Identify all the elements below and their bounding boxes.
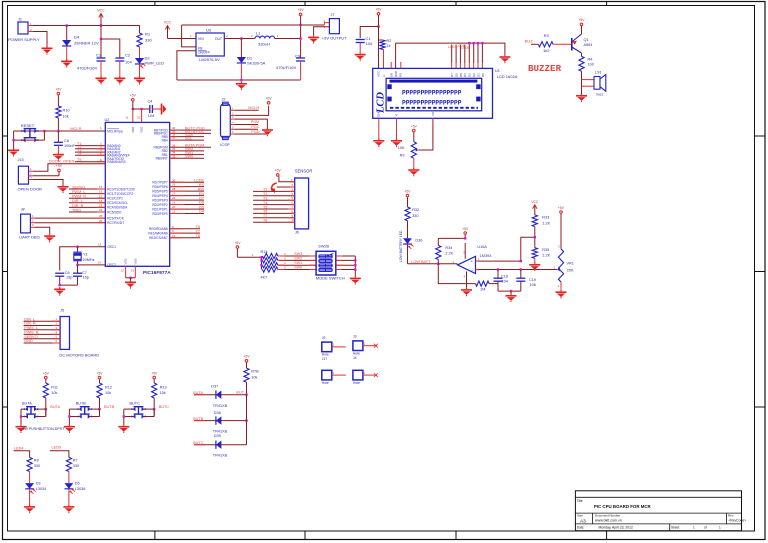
LED D3 L3034 [25,482,46,505]
svg-text:RD6/PSP6: RD6/PSP6 [152,185,168,189]
ground at C3 [96,76,107,85]
junction at D1 [240,37,242,39]
svg-text:C4: C4 [148,99,153,103]
svg-text:1k: 1k [387,44,391,48]
wire +5V down to LCD VCC pin [378,27,380,69]
connector J6 SENSOR [295,168,313,234]
svg-text:ZENNER 12V: ZENNER 12V [74,41,99,46]
svg-text:2.2K: 2.2K [542,254,550,258]
wire U3 OUT to L1 [224,34,255,38]
svg-text:J9: J9 [322,336,326,340]
svg-text:R13: R13 [160,386,167,390]
wire L1 to output node [275,24,302,58]
svg-text:TR41XB: TR41XB [213,429,228,433]
svg-text:LM2576-5V: LM2576-5V [199,57,220,62]
svg-text:29: 29 [172,183,176,187]
svg-text:104: 104 [502,279,508,283]
ground at buzzer [576,94,587,103]
wire LED to comparator output [408,260,458,264]
svg-text:D0: D0 [481,73,485,77]
svg-text:DIR_L: DIR_L [72,199,83,203]
capacitor C19 106 [516,270,536,292]
wire R3 to Q1 base [553,43,572,45]
svg-text:RC5/SDO: RC5/SDO [107,210,122,214]
svg-text:EN: EN [390,73,394,77]
svg-text:PWM_L: PWM_L [72,190,86,194]
capacitor C1 104 [356,36,373,52]
svg-text:J8: J8 [21,207,25,211]
wire VDD pins [125,108,149,123]
resistor R10 10k [56,106,70,131]
wire J8 pin3 to ground [35,227,50,234]
wire plus input to divider [476,237,535,262]
svg-text:RA5/AN4/SS: RA5/AN4/SS [107,160,125,164]
svg-text:Hole: Hole [353,352,360,356]
wires RE port T6-T8 [170,225,200,238]
svg-text:D39: D39 [214,434,221,438]
connector J13 OPEN DOOR [18,158,43,191]
svg-text:PGC: PGC [251,125,259,129]
svg-text:GND: GND [377,110,381,118]
capacitor C7 15p [73,265,89,285]
svg-text:PIC CPU BOARD FOR MCR: PIC CPU BOARD FOR MCR [594,504,652,509]
transistor Q1 A564 [572,34,593,53]
wire branch to C1 [360,27,378,39]
svg-text:Hole: Hole [322,353,329,357]
ground at mode switch [350,276,361,285]
svg-text:Hole: Hole [353,381,360,385]
power symbol +5V at R32 [404,189,411,207]
svg-text:+5V: +5V [243,355,250,359]
svg-text:LOW BATTERY LED: LOW BATTERY LED [399,230,403,262]
capacitor C9 470UF/16V [276,54,305,81]
svg-text:LM393: LM393 [480,254,492,258]
wire J13 pin3 to ground [33,180,63,185]
svg-text:19: 19 [172,210,176,214]
junction at output R34 [437,263,439,265]
svg-text:18: 18 [99,199,103,203]
DIP switch SW2B MODE SWITCH [316,245,345,281]
wire ON/OFF to gnd rail [177,51,196,80]
ground at LCD GND [373,139,384,148]
svg-text:RD7/PSP7: RD7/PSP7 [152,181,168,185]
wire OSC1 to crystal [60,243,106,271]
wire main input rail [33,25,140,27]
wires J5 motor nets [24,317,61,343]
crystal Y1 20MHz [73,247,94,265]
svg-text:R32: R32 [412,208,419,212]
power symbol +5V at buzzer [578,18,585,34]
wire +5V to R14 [237,253,261,257]
svg-text:D4: D4 [463,73,467,77]
svg-text:+5V: +5V [411,124,418,128]
net label BUTB [104,405,115,409]
svg-text:+5V: +5V [266,97,273,101]
svg-text:MCLR: MCLR [248,106,259,110]
ground at VR1 [556,290,567,299]
svg-text:100nF: 100nF [64,144,75,148]
LCD data wires D3-D0 [468,42,484,69]
svg-text:D38: D38 [214,411,221,415]
svg-text:33: 33 [172,154,176,158]
svg-text:D6: D6 [199,201,204,205]
resistor R1 330 [137,26,153,48]
svg-text:T3: T3 [263,197,267,201]
svg-text:2.2K: 2.2K [542,221,550,225]
power symbol VCC at U3 [164,21,172,39]
svg-text:104: 104 [366,41,373,46]
svg-text:12: 12 [121,269,125,273]
power symbol VCC input [97,9,105,26]
svg-text:T5: T5 [77,158,81,162]
svg-text:R33: R33 [542,216,549,220]
diode D38 TR41XB [193,411,246,433]
resistor R32 330 [405,207,419,238]
resistor network R14 4K7 [261,250,278,279]
svg-text:15p: 15p [66,276,72,280]
ground at C8 [53,152,64,161]
svg-text:ON/OFF: ON/OFF [198,51,210,55]
svg-text:D1: D1 [476,73,480,77]
resistor R4 100 [579,56,594,71]
resistor R8 330 [27,457,40,483]
svg-text:+5V: +5V [55,87,62,91]
svg-text:D7: D7 [450,73,454,77]
svg-text:R12: R12 [105,386,112,390]
svg-text:20K: 20K [567,268,574,272]
capacitor C3 470UF/16V [77,53,106,77]
wires ICSP pins [230,106,268,134]
svg-text:Date:: Date: [577,526,585,530]
net label LED5 [50,445,69,457]
wires DIP switch to ground [336,256,357,276]
mounting hole J3 [353,335,378,360]
wires VSS pins to ground [121,266,136,280]
svg-text:R9: R9 [400,154,405,158]
svg-text:VIN: VIN [198,37,204,41]
svg-text:DC MOTORS BOARD: DC MOTORS BOARD [59,352,99,357]
junction input rail at VCC [100,24,102,26]
svg-text:Rev: Rev [728,513,734,517]
svg-text:Size: Size [577,513,583,517]
svg-text:L3034: L3034 [36,487,47,491]
svg-text:VSS: VSS [133,258,137,264]
svg-text:+5V: +5V [130,94,137,98]
svg-text:K: K [395,114,399,116]
inductor L1 330uH [251,31,279,47]
svg-text:BUTB: BUTB [193,417,204,421]
svg-text:L1: L1 [256,31,261,36]
svg-text:10k: 10k [51,391,57,395]
svg-text:C2: C2 [125,53,131,58]
svg-text:RD1/PSP1: RD1/PSP1 [152,207,168,211]
svg-text:RC1/T1OSI/CCP2: RC1/T1OSI/CCP2 [107,192,133,196]
svg-text:R7B: R7B [251,370,259,374]
svg-text:1: 1 [719,526,721,530]
svg-text:330uH: 330uH [258,42,270,47]
wire OSC2 from crystal [76,261,105,266]
svg-text:OPEN DOOR: OPEN DOOR [18,186,43,191]
net label BUT [236,391,244,395]
svg-text:J7: J7 [331,13,335,17]
wires RB port nets [170,126,211,158]
junction +5V LCD vertical [377,25,379,27]
svg-text:MODE SWITCH: MODE SWITCH [316,276,345,281]
svg-text:30: 30 [172,178,176,182]
svg-text:RD3/PSP3: RD3/PSP3 [152,198,168,202]
resistor R33 2.2K [532,215,550,248]
diode D37 TR41XB [193,384,246,408]
junctions at R14 common [260,256,262,266]
svg-text:SCL: SCL [185,136,192,140]
wires RC motor control nets [69,185,105,223]
svg-text:RC6/TX/CK: RC6/TX/CK [107,216,125,220]
capacitor C6 15p [55,271,72,285]
svg-text:LCD5: LCD5 [461,46,470,50]
svg-text:470UF/16V: 470UF/16V [77,66,98,71]
svg-text:+5V: +5V [462,227,469,231]
wire DOOR_OPEN net [33,159,105,172]
svg-text:OSC1: OSC1 [107,245,116,249]
diode D39 TR41XB [193,434,246,457]
svg-text:330: 330 [73,464,79,468]
svg-text:VDD: VDD [131,126,135,133]
svg-text:SW2: SW2 [294,256,302,260]
wire diode common [246,395,248,445]
junction OSC1 at Y1 [76,246,78,248]
svg-text:RD2/PSP2: RD2/PSP2 [152,203,168,207]
wire LCD K pin to ground [396,118,398,138]
svg-text:J6: J6 [295,230,299,234]
svg-text:BUZ: BUZ [525,38,534,43]
svg-text:10: 10 [172,234,176,238]
svg-text:PGM: PGM [251,120,260,124]
svg-text:RE2/CS/AN7: RE2/CS/AN7 [149,236,168,240]
label SW PUSHBUTTON-DPST [22,427,65,431]
wire caps to ground [498,290,521,294]
ground at J7 [308,35,319,44]
svg-text:10k: 10k [160,391,166,395]
power symbol +5V at J13 [56,164,63,176]
power symbol +5V at J6 [275,169,282,177]
ground at D2 [134,76,145,85]
svg-text:R11: R11 [51,386,58,390]
svg-text:BUTC: BUTC [159,405,170,409]
potentiometer VR1 20K [554,244,575,290]
mounting hole None [353,370,378,385]
wire Q1 collector to R4 [581,53,583,56]
svg-text:Hole: Hole [322,381,329,385]
net label BUTA [50,405,60,409]
power symbol +5V at R10 [55,87,62,106]
svg-text:R34: R34 [445,246,452,250]
svg-text:C7: C7 [82,271,87,275]
LCD control pin stubs [391,62,401,68]
ground at LCD data bus [499,55,510,64]
svg-text:T6: T6 [263,210,267,214]
resistor R36 1M feedback [438,264,498,292]
svg-text:R1: R1 [145,32,151,37]
pushbutton BUTA [20,401,46,424]
svg-text:SW2B: SW2B [318,245,329,249]
svg-text:RESET: RESET [21,123,35,128]
LCD module U1 LCD 1602A [373,68,518,118]
svg-text:RD5/PSP5: RD5/PSP5 [152,189,168,193]
resistor R35 2.2K [532,248,550,263]
svg-text:R35: R35 [542,248,549,252]
svg-text:BUT: BUT [236,391,244,395]
junction D1 to gnd rail [240,79,242,81]
svg-text:+5V: +5V [578,18,585,22]
svg-text:20: 20 [172,205,176,209]
wire LCD GND pin to ground [378,118,380,138]
wire data bus D0-D3 to gnd [396,43,505,68]
junction MCLR at R10 [57,130,59,132]
svg-text:POWER SUPPLY: POWER SUPPLY [8,37,40,42]
svg-text:J13: J13 [18,158,24,162]
connector J1 POWER SUPPLY [8,18,40,43]
svg-text:R3: R3 [544,33,550,38]
svg-text:10k: 10k [63,115,69,119]
potentiometer R9 10K [398,142,419,168]
svg-text:R/W: R/W [394,71,398,77]
resistor R34 2.2K pullup [436,238,454,263]
resistor R3 1k2 [538,33,553,53]
svg-text:SERVO: SERVO [72,185,85,189]
svg-text:10k: 10k [105,391,111,395]
svg-text:T8: T8 [196,234,200,238]
svg-text:J2: J2 [222,98,226,102]
svg-text:A564: A564 [584,43,593,47]
svg-text:BUZZER: BUZZER [528,63,562,74]
svg-text:14: 14 [98,261,102,265]
ground at BUTA [16,424,27,433]
svg-text:31: 31 [131,269,135,273]
svg-text:D7: D7 [199,196,204,200]
op-amp U16A LM393 [453,243,492,288]
svg-text:15: 15 [99,185,103,189]
wires R14 to DIP switch [278,252,316,270]
capacitor C4 104 decoupling [148,99,160,118]
wire FB to +5V rail [182,25,196,47]
title block [575,491,746,531]
svg-text:R4: R4 [588,58,593,62]
svg-text:17: 17 [99,194,103,198]
svg-text:BUTC: BUTC [130,401,141,405]
label BUZZER [528,63,562,74]
svg-text:+5V: +5V [43,371,50,375]
svg-text:15p: 15p [83,276,89,280]
svg-text:RC4/SDI/SDA: RC4/SDI/SDA [107,206,128,210]
ground at D3 [24,505,35,514]
power symbol +5V at R12 [96,371,103,383]
svg-text:J3: J3 [353,335,357,339]
svg-text:RS: RS [199,183,205,187]
wire J6 pin1 to +5V [279,176,295,181]
svg-text:U3: U3 [206,29,211,33]
wire J13 pin2 to +5V [33,175,59,177]
svg-text:UART DBG: UART DBG [19,234,40,239]
connector J7 +5V OUTPUT [314,13,348,41]
svg-text:LS1: LS1 [595,70,602,74]
speaker LS1 buzzer [594,70,606,96]
net label LED4 [14,447,30,458]
svg-text:D3: D3 [468,73,472,77]
svg-text:BUTA: BUTA [193,391,203,395]
svg-text:TR41XB: TR41XB [213,453,228,457]
svg-text:VCC: VCC [531,200,539,204]
svg-text:TRIG: TRIG [72,208,81,212]
svg-text:PPPPPPPPPPPPPPPP: PPPPPPPPPPPPPPPP [402,90,462,97]
mounting hole J9 [322,336,346,361]
svg-text:Y1: Y1 [83,252,88,256]
svg-text:+5V: +5V [275,169,282,173]
svg-text:+5V: +5V [56,164,63,168]
ground at crystal [54,287,65,296]
wires J6 sensor inputs T1-T8 [253,183,295,223]
svg-text:A: A [382,75,386,77]
svg-text:of: of [704,526,707,530]
svg-text:Title: Title [577,499,583,503]
svg-text:ICSP: ICSP [220,142,230,147]
power symbol +5V at ICSP [266,97,273,105]
ground at D4 [61,59,72,68]
svg-text:C3: C3 [96,53,102,58]
svg-text:D5: D5 [199,205,204,209]
wire UART RX [35,222,105,224]
svg-text:BUTB: BUTB [104,405,115,409]
svg-text:RW: RW [198,187,205,191]
svg-text:BUTC: BUTC [193,441,204,445]
svg-text:OSC2: OSC2 [107,263,116,267]
mounting hole None [322,370,346,385]
svg-text:T2: T2 [263,192,267,196]
microcontroller U2 PIC16F877A [105,118,172,276]
svg-text:LCDE: LCDE [194,178,205,182]
regulator U3 LM2576-5V [196,29,224,62]
svg-text:+5V: +5V [375,8,382,12]
svg-text:VO: VO [431,111,435,116]
ground at R35 [529,263,540,272]
wire VCC to U3 VIN [168,34,197,38]
svg-text:+5V: +5V [558,206,565,210]
power symbol +5V at LCD [375,8,382,27]
junction at BUTB [98,408,100,410]
pushbutton BUTC [123,401,155,424]
ground at RESET [8,148,19,157]
wire MCLR net [14,126,106,131]
svg-text:10k: 10k [251,375,257,379]
svg-text:MCLR/Vpp: MCLR/Vpp [107,129,123,133]
svg-text:A3: A3 [580,518,586,523]
ground at J8 [44,234,55,243]
diode D1 SK330-5A [237,39,266,81]
arrow marker at J6 pin2 [271,183,277,193]
svg-text:SW PUSHBUTTON-DPST: SW PUSHBUTTON-DPST [22,427,65,431]
svg-text:R7: R7 [73,459,78,463]
resistor R11 10k [43,383,58,417]
ground at BUTC [118,424,129,433]
svg-text:4K7: 4K7 [261,276,268,280]
svg-text:J5: J5 [60,309,64,313]
svg-text:RC0/T1OSO/T1CKI: RC0/T1OSO/T1CKI [107,187,135,191]
svg-text:C18: C18 [501,274,508,278]
svg-text:C9: C9 [295,54,301,59]
svg-text:TR41XB: TR41XB [213,404,228,408]
svg-text:T8: T8 [263,219,267,223]
svg-text:D37: D37 [211,384,218,388]
svg-text:D5: D5 [75,482,80,486]
